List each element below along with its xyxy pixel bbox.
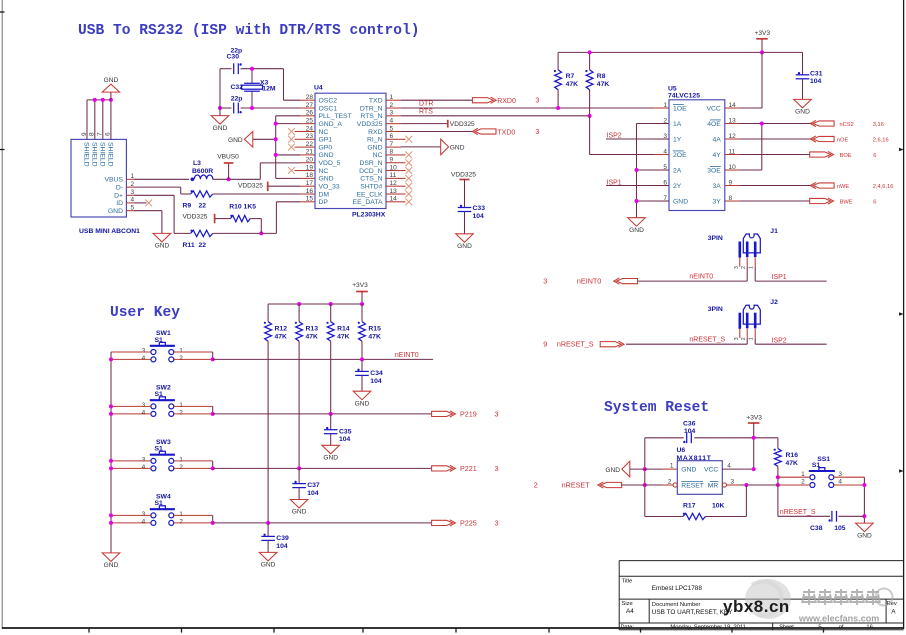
- svg-text:14: 14: [729, 102, 737, 109]
- U4 NC stub extensions left: [295, 130, 301, 132]
- svg-text:R10 1K5: R10 1K5: [229, 204, 256, 211]
- svg-text:2Y: 2Y: [673, 183, 682, 190]
- svg-text:3: 3: [495, 410, 499, 419]
- svg-text:R13: R13: [306, 325, 319, 332]
- wire U4 ground bus vertical: [276, 115, 300, 117]
- svg-text:12: 12: [729, 133, 737, 140]
- wire net D+ from R11 to U4 DP: [213, 232, 277, 234]
- svg-text:GND: GND: [605, 467, 620, 474]
- wire net VBUS from CON1 to L3: [134, 178, 189, 180]
- junction dot SW1 right: [211, 357, 215, 361]
- svg-text:25: 25: [306, 117, 314, 124]
- svg-text:TXD: TXD: [369, 98, 383, 105]
- svg-text:DM: DM: [319, 191, 330, 198]
- svg-text:4A: 4A: [712, 136, 721, 143]
- frame zone tick marks bottom: [88, 628, 90, 633]
- USB connector CON1 body: [71, 139, 126, 217]
- junction dot P225/R12: [266, 521, 270, 525]
- svg-text:4Y: 4Y: [712, 152, 721, 159]
- svg-text:DP: DP: [319, 199, 329, 206]
- wire crystal bottom net (OSC1): [220, 107, 232, 109]
- svg-text:47K: 47K: [786, 460, 799, 467]
- svg-text:D-: D-: [116, 184, 123, 191]
- wire left key bus: [110, 352, 112, 553]
- svg-text:C33: C33: [473, 205, 486, 212]
- svg-text:47K: 47K: [306, 334, 319, 341]
- svg-text:1: 1: [749, 266, 755, 269]
- wire net nWE from U5 3A: [740, 185, 812, 187]
- wire SW1 left pins to bus: [111, 351, 151, 353]
- svg-text:2A: 2A: [673, 167, 682, 174]
- svg-text:VCC: VCC: [706, 105, 720, 112]
- inductor L3: [194, 175, 213, 179]
- svg-text:22: 22: [199, 242, 207, 249]
- svg-text:GND: GND: [457, 243, 472, 250]
- svg-text:4: 4: [663, 148, 667, 155]
- wire CON1 ID stub: [134, 202, 147, 204]
- wire net nEINT0 line: [638, 280, 748, 282]
- svg-text:VBUS: VBUS: [104, 177, 123, 184]
- svg-text:ISP2: ISP2: [607, 133, 622, 140]
- wire net BOE from U5 4Y: [740, 154, 810, 156]
- resistor R9: [191, 191, 213, 197]
- svg-text:3,16: 3,16: [873, 122, 884, 128]
- svg-text:D+: D+: [114, 193, 123, 200]
- ground symbol key bus: [102, 553, 120, 562]
- svg-text:22: 22: [199, 202, 207, 209]
- svg-text:6: 6: [390, 133, 394, 140]
- svg-text:GND: GND: [367, 144, 382, 151]
- svg-text:ISP2: ISP2: [772, 337, 787, 344]
- svg-text:3: 3: [734, 337, 740, 340]
- wire net ISP1 stub to U5 2Y: [606, 185, 669, 187]
- svg-text:2,6,16: 2,6,16: [873, 138, 889, 144]
- wire SW1 right pins jog: [174, 351, 213, 353]
- switch SW1: [150, 345, 175, 347]
- capacitor C34 with ground: [361, 359, 363, 371]
- switch SW4: [150, 508, 175, 510]
- svg-text:104: 104: [684, 428, 696, 435]
- junction dots shield bus: [93, 98, 97, 102]
- svg-text:11: 11: [390, 172, 397, 179]
- svg-text:CTS_N: CTS_N: [360, 176, 382, 183]
- ground symbol below U5: [628, 218, 646, 227]
- svg-text:3: 3: [734, 266, 740, 269]
- svg-text:1OE: 1OE: [673, 105, 687, 112]
- junction dot SW3 right: [211, 466, 215, 470]
- IC U5 74LVC125 body: [669, 100, 725, 211]
- svg-text:GND: GND: [108, 208, 123, 215]
- svg-text:L3: L3: [193, 160, 201, 167]
- svg-text:OSC1: OSC1: [319, 105, 338, 112]
- svg-text:GP1: GP1: [319, 137, 333, 144]
- svg-text:22p: 22p: [231, 95, 243, 102]
- svg-text:Title: Title: [622, 579, 633, 585]
- crystal X3: [251, 69, 253, 84]
- svg-text:6: 6: [873, 200, 876, 206]
- svg-text:GND: GND: [323, 455, 338, 462]
- port nRESET (input): [601, 482, 622, 487]
- svg-text:R12: R12: [275, 325, 288, 332]
- wire U6 MR to switch net: [727, 484, 741, 486]
- svg-text:VO_33: VO_33: [319, 183, 340, 190]
- frame zone tick marks right edge: [899, 148, 904, 473]
- wire net ISP2 stub to U5 1Y: [606, 138, 669, 140]
- svg-text:15: 15: [306, 196, 314, 203]
- svg-text:2OE: 2OE: [673, 152, 687, 159]
- switch SW3: [150, 454, 175, 456]
- svg-text:SHTD#: SHTD#: [360, 183, 383, 190]
- svg-text:R15: R15: [368, 325, 381, 332]
- svg-text:Date:: Date:: [621, 625, 635, 631]
- wire from R10 to D+ net: [250, 218, 261, 220]
- wire U5 4OE to 3OE link: [761, 124, 763, 171]
- svg-text:BWE: BWE: [840, 200, 853, 206]
- svg-text:16: 16: [306, 188, 314, 195]
- wire +3V3 distribution to R12-R15: [268, 303, 362, 305]
- svg-text:C36: C36: [683, 420, 696, 427]
- watermark chinese characters: [802, 589, 880, 605]
- junction dots key bus: [109, 357, 113, 361]
- svg-text:GND: GND: [155, 243, 170, 250]
- svg-text:104: 104: [339, 436, 351, 443]
- svg-text:Size: Size: [622, 601, 633, 607]
- svg-text:28: 28: [306, 94, 314, 101]
- svg-text:Document Number: Document Number: [652, 602, 701, 608]
- svg-text:10K: 10K: [712, 503, 725, 510]
- svg-text:of: of: [839, 625, 844, 631]
- svg-text:S1: S1: [155, 446, 164, 453]
- svg-text:24: 24: [306, 125, 314, 132]
- svg-text:C34: C34: [370, 370, 383, 377]
- svg-text:VDD325: VDD325: [183, 213, 208, 220]
- wire nRESET to U6 pin2: [622, 484, 662, 486]
- svg-text:nRESET_S: nRESET_S: [557, 340, 594, 349]
- svg-text:13: 13: [390, 188, 398, 195]
- wire U4 GND_A pin25: [276, 123, 300, 125]
- junction dots SS1 right bus: [862, 483, 866, 487]
- svg-text:12: 12: [390, 180, 398, 187]
- svg-text:104: 104: [307, 490, 319, 497]
- svg-text:2: 2: [179, 410, 183, 417]
- port nCS2 (input): [813, 121, 834, 126]
- svg-text:2: 2: [179, 355, 183, 362]
- svg-text:7: 7: [390, 141, 394, 148]
- svg-text:4: 4: [142, 355, 146, 362]
- junction dot nEINT0/R15: [360, 357, 364, 361]
- port RXD0 (output): [472, 98, 493, 103]
- svg-text:1: 1: [663, 102, 667, 109]
- wire C33 to ground: [464, 212, 466, 234]
- capacitor C36: [686, 432, 688, 443]
- svg-text:R16: R16: [786, 452, 799, 459]
- wire R14 lower leg: [330, 341, 332, 414]
- svg-text:GND: GND: [681, 467, 696, 474]
- svg-text:1: 1: [390, 94, 394, 101]
- svg-text:11: 11: [729, 148, 736, 155]
- svg-text:RXD0: RXD0: [497, 98, 516, 105]
- svg-text:105: 105: [834, 525, 846, 532]
- wire net RTS from U4 pin3: [401, 115, 590, 117]
- svg-text:104: 104: [473, 213, 485, 220]
- svg-text:nRESET_S: nRESET_S: [689, 337, 725, 344]
- port nWE (input): [813, 183, 834, 188]
- port nOE (input): [813, 136, 834, 141]
- svg-text:2: 2: [179, 464, 183, 471]
- wire SS1 pins 1 2 to R16/MR: [778, 476, 810, 478]
- svg-text:www.elecfans.com: www.elecfans.com: [798, 614, 879, 624]
- capacitor C31 with ground: [802, 52, 804, 74]
- svg-text:PL2303HX: PL2303HX: [352, 212, 386, 219]
- svg-text:P225: P225: [460, 519, 477, 528]
- svg-text:2,4,6,16: 2,4,6,16: [873, 184, 894, 190]
- svg-text:104: 104: [276, 543, 288, 550]
- svg-text:nRESET: nRESET: [562, 481, 591, 490]
- switch SW2: [150, 399, 175, 401]
- svg-text:A4: A4: [626, 608, 634, 615]
- svg-text:3A: 3A: [712, 183, 721, 190]
- svg-text:3: 3: [142, 402, 146, 409]
- svg-text:104: 104: [370, 378, 382, 385]
- svg-text:GND: GND: [857, 532, 872, 539]
- ground symbol crystal: [211, 116, 229, 125]
- svg-text:3: 3: [142, 457, 146, 464]
- svg-text:13: 13: [729, 117, 737, 124]
- capacitor C33: [458, 207, 472, 209]
- svg-text:DSR_N: DSR_N: [359, 160, 382, 167]
- svg-text:47K: 47K: [275, 334, 288, 341]
- svg-text:EE_CLK: EE_CLK: [356, 191, 383, 198]
- svg-text:ybx8.cn: ybx8.cn: [723, 597, 790, 616]
- wire U5 VCC to +3V3 rail: [740, 107, 762, 109]
- svg-text:74LVC125: 74LVC125: [668, 92, 700, 99]
- port BWE (output): [810, 198, 831, 203]
- svg-text:U4: U4: [314, 85, 323, 92]
- svg-text:3: 3: [495, 519, 499, 528]
- wire SW4 right pins jog: [174, 514, 213, 516]
- svg-text:C35: C35: [339, 428, 352, 435]
- svg-text:nOE: nOE: [837, 138, 849, 144]
- svg-text:NC: NC: [373, 152, 383, 159]
- port TXD0 (input): [475, 129, 496, 134]
- junction dots U6 left bus: [643, 467, 647, 471]
- wire +3V3 rail top: [558, 51, 762, 53]
- U4 NC stub extensions right: [401, 138, 406, 140]
- junction dot R17 riser on MR net: [744, 483, 748, 487]
- svg-text:27: 27: [306, 102, 314, 109]
- port P219 (output): [432, 411, 453, 416]
- svg-text:GND: GND: [261, 562, 276, 569]
- U6 pin bubbles (active low): [673, 483, 677, 487]
- wire SW2 right pins jog: [174, 405, 213, 407]
- port nEINT0 (input): [617, 279, 638, 284]
- svg-text:3: 3: [535, 98, 539, 105]
- connector J1 3PIN jumper: [743, 234, 760, 253]
- svg-text:3OE: 3OE: [707, 167, 721, 174]
- wire net RTS continues to U5 2OE: [589, 116, 591, 155]
- wire +3V3 to U6 VCC pin4: [753, 438, 755, 469]
- capacitor C30: [233, 63, 235, 74]
- svg-text:P219: P219: [460, 410, 477, 419]
- svg-text:2: 2: [668, 478, 672, 485]
- svg-text:TXD0: TXD0: [497, 129, 515, 136]
- svg-text:3Y: 3Y: [712, 198, 721, 205]
- U4 no-connect X marks right pins 6 8 9 10 11 12 13 14: [405, 136, 412, 143]
- svg-text:14: 14: [390, 196, 398, 203]
- svg-text:2: 2: [741, 266, 747, 269]
- svg-text:Monday, September 19, 2011: Monday, September 19, 2011: [670, 625, 746, 631]
- svg-text:GND: GND: [673, 198, 688, 205]
- wire R15 lower leg: [361, 341, 363, 359]
- wire net D- jog: [134, 186, 181, 188]
- no-connect X on ID: [145, 200, 152, 207]
- ground symbol CON1 GND: [153, 233, 171, 242]
- svg-text:6: 6: [873, 153, 876, 159]
- capacitor C35 with ground: [330, 414, 332, 430]
- svg-text:47K: 47K: [597, 81, 610, 88]
- svg-text:GND: GND: [355, 400, 370, 407]
- wire net nRESET_S line: [626, 343, 747, 345]
- wire net P219 row: [213, 413, 432, 415]
- U4 left pin stubs and numbers: [300, 99, 315, 101]
- svg-text:R9: R9: [183, 202, 192, 209]
- svg-text:DTR_N: DTR_N: [360, 105, 383, 112]
- svg-text:SHIELD: SHIELD: [90, 142, 97, 167]
- svg-text:10: 10: [729, 164, 737, 171]
- svg-text:VDD325: VDD325: [451, 172, 476, 179]
- svg-text:47K: 47K: [337, 334, 350, 341]
- svg-text:8: 8: [729, 195, 733, 202]
- svg-text:+3V3: +3V3: [746, 415, 762, 422]
- svg-text:47K: 47K: [368, 334, 381, 341]
- wire SW2 left pins to bus: [111, 405, 151, 407]
- resistor R10: [230, 215, 250, 221]
- wire net BWE from U5 3Y: [740, 200, 810, 202]
- junction dots R13 R14 R15 top: [297, 302, 301, 306]
- svg-text:3PIN: 3PIN: [708, 235, 723, 242]
- svg-text:1: 1: [670, 463, 674, 470]
- resistor R17: [645, 516, 683, 518]
- resistor R14: [330, 304, 332, 322]
- svg-text:4: 4: [142, 410, 146, 417]
- wire SW3 left pins to bus: [111, 460, 151, 462]
- wire left vertical GND bus U6: [644, 438, 646, 517]
- CON1 shield wires to ground bus: [86, 100, 88, 139]
- capacitor C39 with ground: [267, 523, 269, 537]
- junction dot SW2 right: [211, 412, 215, 416]
- svg-text:+3V3: +3V3: [755, 30, 771, 37]
- svg-text:C37: C37: [307, 482, 320, 489]
- svg-text:GND: GND: [319, 176, 334, 183]
- wire net nCS2 from U5 4OE: [740, 123, 812, 125]
- svg-text:C39: C39: [276, 535, 289, 542]
- wire VDD325 to C33: [464, 180, 466, 208]
- power tap VDD325 at U4 pin4: [401, 123, 448, 125]
- svg-text:3: 3: [731, 478, 735, 485]
- svg-text:nEINT0: nEINT0: [395, 352, 419, 359]
- svg-text:5: 5: [390, 125, 394, 132]
- svg-text:RI_N: RI_N: [367, 137, 383, 144]
- svg-text:17: 17: [306, 180, 314, 187]
- svg-text:47K: 47K: [566, 81, 579, 88]
- svg-text:9: 9: [729, 179, 733, 186]
- title block outline: [619, 561, 903, 630]
- wire J1 pin1 to ISP1 line: [754, 267, 756, 281]
- svg-text:GP0: GP0: [319, 144, 333, 151]
- svg-text:S1: S1: [155, 391, 164, 398]
- port nRESET_S (output): [600, 342, 621, 347]
- wire C36 top net: [645, 437, 684, 439]
- svg-text:3PIN: 3PIN: [708, 306, 723, 313]
- wire R12 lower leg: [267, 341, 269, 523]
- capacitor C32: [233, 103, 235, 114]
- junction dots crystal: [250, 67, 254, 71]
- wire U5 ground bus (pins 2 5 7): [637, 123, 670, 125]
- svg-text:GND: GND: [795, 109, 810, 116]
- svg-text:GND: GND: [319, 152, 334, 159]
- svg-text:10: 10: [390, 164, 398, 171]
- svg-text:1: 1: [179, 511, 183, 518]
- ground symbol SS1/C38: [856, 523, 874, 532]
- wire net ISP2 line: [755, 343, 826, 345]
- svg-text:21: 21: [306, 149, 314, 156]
- svg-text:18: 18: [306, 172, 314, 179]
- ground symbol above CON1 (apex up): [110, 92, 112, 100]
- svg-text:P221: P221: [460, 464, 477, 473]
- wire net nOE from U5 4A: [740, 138, 812, 140]
- svg-text:RESET: RESET: [681, 482, 704, 489]
- svg-text:9: 9: [390, 157, 394, 164]
- junction dots R16 bottom: [776, 475, 780, 479]
- svg-text:4: 4: [142, 464, 146, 471]
- svg-text:MAX811T: MAX811T: [677, 455, 712, 462]
- svg-text:Sheet: Sheet: [779, 625, 794, 631]
- svg-text:Embest LPC1788: Embest LPC1788: [652, 585, 703, 592]
- svg-text:B600R: B600R: [192, 168, 213, 175]
- svg-text:16: 16: [866, 625, 872, 631]
- svg-text:VBUS0: VBUS0: [217, 154, 239, 161]
- svg-text:GND: GND: [629, 227, 644, 234]
- svg-text:ISP1: ISP1: [607, 179, 622, 186]
- wire J2 pin1 to ISP2 line: [754, 338, 756, 344]
- svg-text:J1: J1: [770, 228, 778, 235]
- capacitor C37 with ground: [298, 468, 300, 483]
- wire net DTR from U4 pin2 to U5 1OE: [401, 107, 654, 109]
- svg-text:PLL_TEST: PLL_TEST: [319, 113, 352, 120]
- svg-text:GND_A: GND_A: [319, 121, 343, 128]
- svg-text:VDD325: VDD325: [357, 121, 383, 128]
- svg-text:U6: U6: [677, 447, 686, 454]
- port P225 (output): [432, 520, 453, 525]
- watermark logo blob: [745, 579, 791, 619]
- ground arrow symbol U4 left: [253, 138, 276, 140]
- junction node VBUS0 tap: [227, 177, 231, 181]
- port BOE (output): [810, 152, 831, 157]
- resistor R13: [298, 304, 300, 322]
- wire crystal left leg to ground: [219, 69, 221, 116]
- svg-text:2: 2: [390, 102, 394, 109]
- svg-text:1: 1: [179, 402, 183, 409]
- junction dot 4OE: [760, 122, 764, 126]
- sheet frame right border: [903, 0, 905, 629]
- svg-text:DTR: DTR: [419, 101, 433, 108]
- svg-text:SHIELD: SHIELD: [98, 142, 105, 167]
- IC U6 MAX811T body: [677, 461, 722, 495]
- svg-text:ISP1: ISP1: [772, 274, 787, 281]
- resistor R15: [361, 304, 363, 322]
- resistor R16: [777, 438, 779, 449]
- svg-text:S1: S1: [155, 337, 164, 344]
